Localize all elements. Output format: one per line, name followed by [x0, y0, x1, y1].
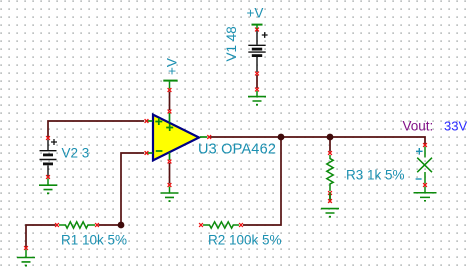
voltage pin probe Vout — [416, 147, 432, 184]
battery V2 — [40, 139, 58, 176]
pin probe ground — [423, 183, 427, 187]
wire R1 to node A — [99, 224, 122, 226]
pin V1 minus — [255, 72, 259, 76]
wire R3 top stub — [329, 137, 331, 152]
svg-text:R3 1k 5%: R3 1k 5% — [346, 168, 405, 183]
ground below U3 — [161, 187, 179, 202]
pin U3 +in — [145, 119, 149, 123]
wire R3 bottom to ground — [329, 195, 331, 201]
pin R1-1 — [55, 223, 59, 227]
pin V1 ground wire end — [255, 88, 259, 92]
ground bottom left — [17, 250, 35, 267]
pin U3 out — [207, 135, 211, 139]
resistor R2 — [203, 222, 239, 228]
ground below R3 — [321, 192, 339, 217]
pin U3 V+ — [168, 110, 172, 114]
svg-text:V2 3: V2 3 — [62, 146, 90, 161]
pin R2-2 — [239, 223, 243, 227]
pin R3 ground — [328, 199, 332, 203]
pin +V supply — [168, 88, 172, 92]
wire node B down to R2 — [243, 137, 281, 225]
pin U3 ground — [168, 183, 172, 187]
svg-text:+V: +V — [165, 58, 180, 75]
pin probe top — [423, 143, 427, 147]
svg-text:V1 48: V1 48 — [224, 26, 239, 61]
svg-text:+V: +V — [247, 6, 264, 21]
wire U3 V+ supply — [169, 92, 171, 111]
node B junction — [278, 134, 285, 141]
pin ground bottom left — [24, 246, 28, 250]
svg-text:R2 100k 5%: R2 100k 5% — [208, 233, 282, 248]
battery V1 — [248, 31, 267, 73]
pin R3-1 — [328, 151, 332, 155]
pin V1 plus — [255, 28, 259, 32]
pin U3 V- — [168, 160, 172, 164]
wire node B to probe corner — [281, 137, 425, 144]
wire V1 minus to ground — [256, 75, 258, 88]
ground below probe — [414, 187, 437, 201]
wire U3 V- to ground — [169, 163, 171, 184]
pin R3-2 — [328, 191, 332, 195]
ground below V2 — [39, 179, 57, 195]
op-amp U3 — [146, 113, 207, 160]
svg-text:Vout:: Vout: — [403, 119, 434, 134]
power +V symbol above U3 — [163, 58, 179, 88]
pin V2 plus — [46, 136, 50, 140]
pin V2 minus — [46, 175, 50, 179]
node A junction — [118, 222, 125, 229]
svg-text:U3 OPA462: U3 OPA462 — [198, 142, 276, 158]
wire net V2+ to U3 noninverting input — [48, 121, 144, 138]
node C junction at R3 — [327, 134, 334, 141]
wire net inverting input from node A — [121, 153, 144, 225]
wire U3 output to node B — [210, 136, 281, 138]
svg-text:33V: 33V — [444, 119, 467, 134]
svg-text:R1 10k 5%: R1 10k 5% — [61, 233, 127, 248]
resistor R3 — [327, 155, 333, 191]
wire bottom left to ground — [26, 225, 56, 247]
pin R1-2 — [95, 223, 99, 227]
resistor R1 — [59, 222, 95, 228]
power +V symbol above V1 — [247, 6, 264, 29]
ground below V1 — [248, 91, 266, 105]
pin U3 -in — [145, 151, 149, 155]
pin R2-1 — [199, 223, 203, 227]
